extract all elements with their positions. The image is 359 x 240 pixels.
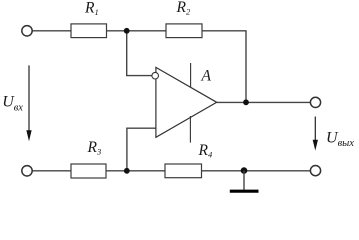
node: bottom junction — [124, 168, 130, 174]
wire: top input terminal to R1 — [32, 30, 71, 32]
node: ground junction — [241, 167, 248, 174]
ground — [230, 171, 259, 192]
op-amp inverting input bubble — [152, 72, 159, 79]
node: output junction — [243, 99, 249, 105]
op-amp U1 triangle — [156, 67, 217, 137]
output terminal (top) — [310, 97, 320, 107]
wire: inverting input from top node — [127, 31, 152, 76]
wire: non-inverting input from bottom node — [127, 128, 156, 171]
output terminal (bottom) — [310, 166, 320, 176]
op-amp bottom pin stroke — [189, 116, 191, 143]
input terminal (top) — [22, 26, 32, 36]
svg-text:A: A — [201, 68, 212, 85]
arrow: output voltage direction — [313, 117, 318, 151]
op-amp top pin stroke — [190, 63, 192, 87]
resistor R3 — [71, 164, 106, 178]
arrow: input voltage direction — [26, 65, 31, 141]
wire: R2 to feedback corner — [202, 30, 247, 32]
wire: feedback vertical drop to output node — [245, 31, 247, 102]
resistor R2 — [166, 24, 202, 38]
resistor R4 — [165, 164, 202, 178]
wire: bottom input terminal to R3 — [32, 170, 71, 172]
wire: R4 to bottom output terminal — [202, 170, 311, 172]
node: top junction — [124, 28, 130, 34]
wire: R3 to R4 through bottom node — [106, 170, 165, 172]
resistor R1 — [71, 24, 107, 38]
wire: R1 to R2 through top node — [107, 30, 167, 32]
input terminal (bottom) — [22, 166, 32, 176]
wire: op-amp output to bottom-right of top rail — [217, 101, 311, 103]
